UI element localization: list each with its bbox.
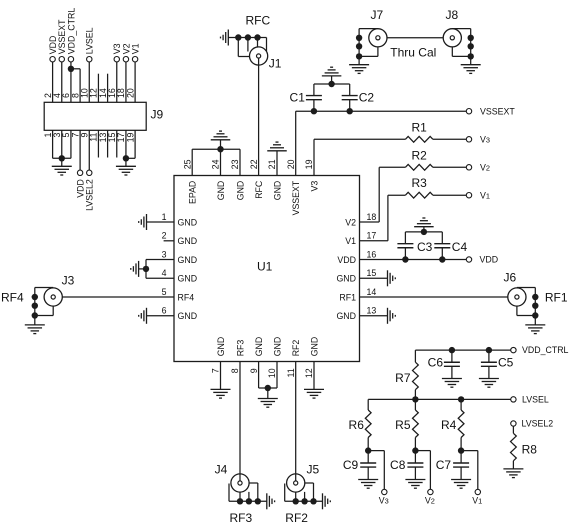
label J6 <box>504 270 517 284</box>
label V2 <box>121 43 131 54</box>
wire V1 jog <box>461 451 478 490</box>
ground J3 <box>25 325 45 334</box>
ground C5 <box>479 379 499 388</box>
wire pin 8 to J4 <box>239 362 241 481</box>
svg-text:EPAD: EPAD <box>188 181 198 204</box>
capacitor C5 <box>481 350 497 378</box>
wire R4 top lead <box>460 399 462 410</box>
node LVSEL terminal <box>511 397 516 402</box>
junction R4 bottom <box>458 447 464 453</box>
ground J1 <box>221 30 229 46</box>
connector J6 center pin <box>515 295 519 299</box>
svg-text:6: 6 <box>162 306 167 316</box>
label R5 <box>395 418 411 432</box>
svg-text:LVSEL2: LVSEL2 <box>85 179 95 211</box>
label LVSEL2 <box>522 419 554 429</box>
ground pin 6 <box>139 308 147 324</box>
wire J9 pins 1,3,5 to ground <box>53 130 71 166</box>
svg-text:U1: U1 <box>257 260 273 274</box>
resistor R5 <box>413 410 419 438</box>
svg-text:RFC: RFC <box>254 180 264 199</box>
wire J8 ground stem <box>470 56 472 64</box>
svg-text:21: 21 <box>267 159 277 169</box>
svg-text:10: 10 <box>267 368 277 378</box>
svg-text:LVSEL: LVSEL <box>522 395 549 405</box>
connector J8 body <box>443 29 461 47</box>
node VDD_CTRL terminal <box>511 347 516 352</box>
svg-text:12: 12 <box>304 368 314 378</box>
capacitor C1 <box>306 84 322 111</box>
junction J7 shell pins <box>356 35 362 60</box>
label VDD <box>480 255 499 265</box>
svg-text:17: 17 <box>367 231 377 241</box>
ground C8 <box>405 480 425 489</box>
svg-text:J6: J6 <box>504 270 517 284</box>
wire U1 pin 13 <box>360 315 388 317</box>
node V3 terminal <box>466 137 471 142</box>
wire J7 ground stem <box>358 56 360 64</box>
wire R2 to V2 terminal <box>433 166 466 168</box>
ground pin 13 <box>388 308 396 324</box>
svg-text:C2: C2 <box>359 91 375 105</box>
label V1 <box>472 495 482 505</box>
wire VDD_CTRL jog to pin 8 <box>71 69 80 103</box>
connector J3 shell <box>35 288 53 316</box>
label VSSEXT <box>480 106 515 116</box>
wire VDD rail <box>360 259 467 261</box>
node VSSEXT terminal <box>59 57 64 62</box>
junction pin 24 <box>217 146 223 152</box>
ground C9 <box>358 480 378 489</box>
capacitor C6 <box>444 350 460 378</box>
connector J7 center pin <box>376 36 380 40</box>
svg-text:R4: R4 <box>441 418 457 432</box>
junction J1 shell pins <box>235 34 261 40</box>
svg-text:22: 22 <box>249 159 259 169</box>
svg-text:9: 9 <box>249 368 259 373</box>
wire U1 pin 15 <box>360 277 388 279</box>
svg-text:GND: GND <box>178 255 198 265</box>
label C7 <box>436 458 452 472</box>
wire U1 pins 25,24,23 bracket <box>192 140 240 176</box>
junction C1/VSSEXT <box>311 108 317 114</box>
svg-text:RF3: RF3 <box>235 340 245 357</box>
junction R7/R5/LVSEL <box>412 396 418 402</box>
label R6 <box>349 418 365 432</box>
label VSSEXT <box>57 19 67 54</box>
connector J1 body <box>250 47 268 65</box>
svg-text:RF2: RF2 <box>291 340 301 357</box>
ground J6 <box>525 325 545 334</box>
wire J9 pin 12 stub <box>97 74 99 103</box>
wire VSSEXT rail <box>296 110 467 112</box>
svg-text:VDD_CTRL: VDD_CTRL <box>66 8 76 55</box>
ground above C3/C4 <box>414 218 434 227</box>
svg-text:LVSEL2: LVSEL2 <box>522 419 554 429</box>
label R8 <box>522 443 538 457</box>
ground pins 9,10 <box>258 399 278 408</box>
connector J4 shell <box>229 483 267 501</box>
label C6 <box>428 356 444 370</box>
svg-text:VDD: VDD <box>337 255 356 265</box>
node LVSEL2 terminal (bottom) <box>87 170 92 175</box>
wire J9 pin 13 stub <box>107 130 109 157</box>
connector J7 body <box>369 29 387 47</box>
svg-text:V3: V3 <box>480 134 490 144</box>
svg-text:GND: GND <box>216 337 226 357</box>
node V3 terminal <box>114 57 119 62</box>
svg-text:C8: C8 <box>390 458 406 472</box>
svg-text:15: 15 <box>367 268 377 278</box>
junction R6 bottom <box>365 447 371 453</box>
wire J9 pin 9 to LVSEL2 <box>88 130 90 170</box>
wire R6 top lead <box>367 399 369 410</box>
wire pin 14 to J6 <box>360 296 515 298</box>
connector J3 body <box>44 288 62 306</box>
connector J3 center pin <box>51 295 55 299</box>
wire U1 pin 7 <box>220 362 222 390</box>
connector J5 center pin <box>294 481 298 485</box>
pin numbers J9 bottom <box>43 133 136 143</box>
svg-text:R7: R7 <box>395 371 411 385</box>
wire J9 pin 6 to VDD_CTRL <box>70 62 72 102</box>
svg-text:GND: GND <box>216 181 226 201</box>
svg-text:C6: C6 <box>428 356 444 370</box>
capacitor C2 <box>342 84 358 111</box>
capacitor C8 <box>407 451 423 480</box>
connector J6 shell <box>517 288 535 316</box>
label RFC <box>246 14 271 28</box>
label V3 <box>379 495 389 505</box>
label RF4 <box>1 291 24 305</box>
svg-text:GND: GND <box>178 236 198 246</box>
svg-text:4: 4 <box>162 268 167 278</box>
wire R6 bottom lead <box>367 438 369 451</box>
wire C1-C2 top link <box>314 76 350 84</box>
junction J5 shell pins <box>293 498 317 504</box>
ground C7 <box>451 480 471 489</box>
label LVSEL <box>522 395 549 405</box>
connector J8 shell <box>452 29 470 57</box>
wire J9 pin 18 to V2 <box>125 62 127 102</box>
junction pins 9,10 <box>265 385 271 391</box>
svg-text:V1: V1 <box>472 495 482 505</box>
svg-text:RF1: RF1 <box>545 291 568 305</box>
svg-text:V2: V2 <box>345 217 356 227</box>
pin names U1 bottom <box>216 337 320 357</box>
capacitor C9 <box>360 451 376 480</box>
svg-text:19: 19 <box>125 133 135 143</box>
label R1 <box>412 120 428 134</box>
svg-text:20: 20 <box>125 88 135 98</box>
label V3 <box>112 43 122 54</box>
resistor R1 <box>405 136 433 142</box>
svg-text:R3: R3 <box>412 176 428 190</box>
pin numbers U1 left <box>162 212 167 316</box>
wire LVSEL rail <box>368 398 511 400</box>
pin names U1 left <box>178 217 198 321</box>
connector J9 body <box>44 102 146 130</box>
ground J9 pins 17,19 <box>116 166 136 175</box>
junction pins 1,3,5 <box>59 155 65 161</box>
connector J5 shell <box>285 483 323 501</box>
svg-text:V3: V3 <box>309 181 319 192</box>
wire R4 bottom lead <box>460 438 462 451</box>
label RF1 <box>545 291 568 305</box>
svg-text:C5: C5 <box>498 356 514 370</box>
label V2 <box>425 495 435 505</box>
junction J3 shell pins <box>32 294 38 319</box>
svg-text:GND: GND <box>336 311 356 321</box>
resistor R7 <box>413 362 419 390</box>
svg-text:3: 3 <box>162 249 167 259</box>
svg-text:C1: C1 <box>290 91 306 105</box>
label J5 <box>307 463 320 477</box>
label RF3 <box>230 511 253 525</box>
connector J6 body <box>508 288 526 306</box>
svg-text:14: 14 <box>367 287 377 297</box>
svg-text:V3: V3 <box>379 495 389 505</box>
svg-text:R5: R5 <box>395 418 411 432</box>
svg-text:V1: V1 <box>131 43 141 54</box>
svg-text:GND: GND <box>178 311 198 321</box>
svg-text:J7: J7 <box>371 8 384 22</box>
pin numbers U1 top <box>182 159 314 169</box>
label V1 <box>131 43 141 54</box>
junction C5/VDD_CTRL <box>486 347 492 353</box>
capacitor C4 <box>434 232 450 260</box>
svg-text:RF4: RF4 <box>178 292 195 302</box>
wire U1 pin 12 <box>313 362 315 390</box>
svg-text:VSSEXT: VSSEXT <box>480 106 515 116</box>
label VDD_CTRL <box>66 8 76 55</box>
wire R7 bottom <box>414 390 416 400</box>
ground pins 3,4 <box>131 261 139 277</box>
svg-text:19: 19 <box>304 159 314 169</box>
junction C3/VDD <box>402 256 408 262</box>
op-amp U1 body <box>174 176 360 362</box>
node VDD terminal (bottom) <box>77 170 82 175</box>
node LVSEL terminal <box>87 57 92 62</box>
svg-text:18: 18 <box>367 212 377 222</box>
label V2 <box>480 162 490 172</box>
svg-text:GND: GND <box>336 274 356 284</box>
wire R5 top lead <box>414 399 416 410</box>
ground above C1/C2 <box>322 67 342 76</box>
node VDD terminal <box>50 57 55 62</box>
label LVSEL2 <box>85 179 95 211</box>
svg-text:8: 8 <box>230 368 240 373</box>
resistor R3 <box>405 192 433 198</box>
svg-text:VSSEXT: VSSEXT <box>291 180 301 215</box>
svg-text:J3: J3 <box>62 274 75 288</box>
pin numbers U1 right <box>367 212 377 316</box>
svg-text:GND: GND <box>235 181 245 201</box>
resistor R6 <box>365 410 371 438</box>
connector J1 center pin <box>257 54 261 58</box>
ground R8 <box>503 469 523 478</box>
label V3 <box>480 134 490 144</box>
connector J7 shell <box>359 29 378 57</box>
label R2 <box>412 148 428 162</box>
wire Thru Cal <box>387 37 443 39</box>
node V2 terminal (bottom) <box>428 489 433 494</box>
svg-text:R6: R6 <box>349 418 365 432</box>
node VDD terminal <box>466 257 471 262</box>
svg-text:RFC: RFC <box>246 14 271 28</box>
wire U1 pins 3,4 bracket <box>139 260 174 279</box>
svg-text:GND: GND <box>254 337 264 357</box>
svg-text:C7: C7 <box>436 458 452 472</box>
label U1 <box>257 260 273 274</box>
label J1 <box>269 56 282 70</box>
junction C2/VSSEXT <box>347 108 353 114</box>
resistor R4 <box>458 410 464 438</box>
wire V2 jog <box>415 451 430 490</box>
svg-text:R1: R1 <box>412 120 428 134</box>
junction J4 shell pins <box>237 498 261 504</box>
label LVSEL <box>85 27 95 54</box>
label C9 <box>343 458 359 472</box>
wire J3 ground stem <box>34 316 36 325</box>
svg-text:V1: V1 <box>345 236 356 246</box>
svg-text:VDD: VDD <box>480 255 499 265</box>
wire C3-C4 top link <box>405 227 442 232</box>
wire U1 pin 2 stub <box>164 240 174 242</box>
svg-text:GND: GND <box>309 337 319 357</box>
label R7 <box>395 371 411 385</box>
svg-text:C3: C3 <box>417 240 433 254</box>
junction C6/VDD_CTRL <box>449 347 455 353</box>
label VDD <box>76 179 86 198</box>
wire R1 to V3 terminal <box>433 138 466 140</box>
svg-text:RF1: RF1 <box>339 292 356 302</box>
junction pins 17,19 <box>123 155 129 161</box>
svg-text:1: 1 <box>162 212 167 222</box>
svg-text:LVSEL: LVSEL <box>85 27 95 54</box>
junction C1/C2 top <box>328 81 334 87</box>
ground pin 15 <box>388 270 396 286</box>
ground J8 <box>461 65 481 74</box>
connector J5 body <box>287 474 305 492</box>
wire VSSEXT pin 20 <box>295 111 297 175</box>
svg-text:C4: C4 <box>452 240 468 254</box>
ground J7 <box>349 65 369 74</box>
connector J4 body <box>231 474 249 492</box>
label J9 <box>151 108 164 122</box>
svg-text:V2: V2 <box>425 495 435 505</box>
svg-text:16: 16 <box>367 249 377 259</box>
label Thru Cal <box>390 45 436 59</box>
label C2 <box>359 91 375 105</box>
wire V3 pin 19 <box>314 139 405 175</box>
pin names U1 top <box>188 180 320 215</box>
wire R3 to V1 terminal <box>433 194 466 196</box>
svg-text:Thru Cal: Thru Cal <box>390 45 436 59</box>
label J3 <box>62 274 75 288</box>
capacitor C3 <box>397 232 413 260</box>
label J8 <box>446 8 459 22</box>
svg-text:J9: J9 <box>151 108 164 122</box>
ground pin 7 <box>211 389 231 398</box>
connector J8 center pin <box>450 36 454 40</box>
resistor R8 <box>511 433 517 461</box>
wire J9 pin 4 to VSSEXT <box>61 62 63 102</box>
wire R5 bottom lead <box>414 438 416 451</box>
svg-text:RF3: RF3 <box>230 511 253 525</box>
pin numbers J9 top <box>43 88 136 98</box>
svg-text:7: 7 <box>211 368 221 373</box>
svg-text:GND: GND <box>272 337 282 357</box>
label J4 <box>215 463 228 477</box>
label V1 <box>480 190 490 200</box>
svg-text:J1: J1 <box>269 56 282 70</box>
ground J5 <box>323 493 331 509</box>
ground C6 <box>442 379 462 388</box>
ground J4 <box>267 493 275 509</box>
wire U1 pin 21 <box>276 151 278 176</box>
svg-text:25: 25 <box>182 159 192 169</box>
wire RF4 to pin 5 <box>55 296 174 298</box>
junction R5 bottom <box>412 447 418 453</box>
wire V1 pin 17 <box>360 195 406 241</box>
svg-text:GND: GND <box>272 181 282 201</box>
ground pin 12 <box>304 389 324 398</box>
svg-text:5: 5 <box>162 287 167 297</box>
svg-text:GND: GND <box>178 274 198 284</box>
svg-text:11: 11 <box>286 368 296 377</box>
wire J9 pin 20 to V1 <box>134 62 136 102</box>
svg-text:24: 24 <box>211 159 221 169</box>
wire J1 to pin 22 <box>258 58 260 175</box>
svg-text:20: 20 <box>286 159 296 169</box>
capacitor C7 <box>453 451 469 480</box>
ground above pin 24 <box>211 131 231 140</box>
ground pin 1 <box>139 214 147 230</box>
wire J9 pin 11 stub <box>97 130 99 157</box>
wire J9 pin 16 to V3 <box>116 62 118 102</box>
pin names U1 right <box>336 217 356 321</box>
label VDD_CTRL <box>522 345 569 355</box>
junction R4/LVSEL <box>458 396 464 402</box>
junction J6 shell pins <box>532 294 538 319</box>
label R4 <box>441 418 457 432</box>
wire J9 pin 2 to VDD <box>52 62 54 102</box>
label R3 <box>412 176 428 190</box>
wire V3 jog <box>368 451 384 490</box>
node VSSEXT terminal <box>466 109 471 114</box>
wire pin 11 to J5 <box>295 362 297 481</box>
connector J1 shell <box>228 38 266 57</box>
junction J8 shell pins <box>468 35 474 60</box>
wire LVSEL2 to R8 <box>512 426 514 433</box>
svg-text:C9: C9 <box>343 458 359 472</box>
label VDD <box>48 36 58 55</box>
node V3 terminal (bottom) <box>382 489 387 494</box>
label C4 <box>452 240 468 254</box>
node VDD_CTRL terminal <box>68 57 73 62</box>
wire V2 pin 18 <box>360 167 406 222</box>
label RF2 <box>285 511 308 525</box>
svg-text:GND: GND <box>178 217 198 227</box>
wire U1 pin 6 <box>147 315 175 317</box>
svg-text:V2: V2 <box>480 162 490 172</box>
node V1 terminal <box>466 193 471 198</box>
svg-text:RF4: RF4 <box>1 291 24 305</box>
svg-text:J8: J8 <box>446 8 459 22</box>
junction pins 3,4 <box>143 266 149 272</box>
wire U1 pins 9,10 bracket <box>259 362 277 399</box>
